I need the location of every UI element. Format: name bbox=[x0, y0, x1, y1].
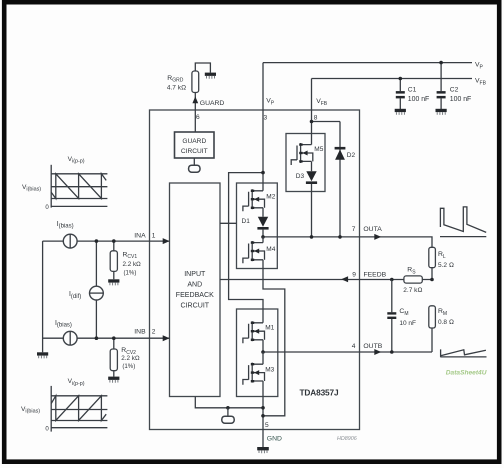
waveform input A diagram bbox=[22, 156, 107, 211]
resistor RL bbox=[429, 247, 454, 279]
resistor RCV2 bbox=[110, 338, 140, 376]
svg-text:10 nF: 10 nF bbox=[399, 320, 416, 327]
wire M4 source return loop bbox=[263, 269, 285, 416]
wire D1 to OUTA node bbox=[262, 230, 264, 237]
ground at C2 bbox=[436, 109, 447, 115]
pin 2 INB label bbox=[134, 328, 156, 335]
transistor M1 bbox=[243, 321, 275, 352]
wire drive line input box to stage A bbox=[220, 222, 237, 224]
arrow on guard wire bbox=[192, 96, 198, 103]
svg-text:CIRCUIT: CIRCUIT bbox=[181, 148, 208, 155]
arrow INA bbox=[163, 238, 170, 244]
svg-text:D2: D2 bbox=[347, 152, 356, 159]
arrow OUTB bbox=[374, 349, 381, 355]
guard circuit block bbox=[175, 132, 215, 158]
output stage B box (M1,M3) bbox=[237, 309, 278, 397]
wire GND vertical pin 5 bbox=[262, 397, 264, 448]
svg-text:100 nF: 100 nF bbox=[450, 96, 471, 103]
wire FEEDB bbox=[220, 279, 432, 281]
current source Ibias top bbox=[57, 221, 77, 248]
svg-text:M1: M1 bbox=[265, 325, 274, 332]
arrow INB bbox=[163, 335, 170, 341]
resistor RM bbox=[429, 306, 454, 352]
capacitor CM bbox=[387, 280, 416, 353]
svg-text:2.7 kΩ: 2.7 kΩ bbox=[403, 287, 422, 294]
node junction C1-VFB bbox=[399, 77, 403, 81]
substrate tab bbox=[222, 416, 234, 423]
pin 9 FEEDB label bbox=[352, 271, 386, 278]
node OUTA junctions bbox=[261, 235, 342, 239]
capacitor C1 bbox=[396, 79, 429, 110]
svg-text:INA: INA bbox=[134, 232, 146, 239]
ground at RCV1 bbox=[108, 279, 119, 285]
wire M5 to D3 bbox=[311, 161, 313, 171]
current source Idif bbox=[69, 286, 103, 300]
svg-text:2.2 kΩ: 2.2 kΩ bbox=[121, 355, 140, 362]
arrow OUTA bbox=[374, 234, 381, 240]
svg-text:DataSheet4U: DataSheet4U bbox=[446, 370, 487, 377]
svg-text:4: 4 bbox=[352, 343, 356, 350]
pin 7 OUTA label bbox=[352, 226, 382, 233]
wire VFB to D2 stub bbox=[312, 121, 341, 123]
svg-text:D3: D3 bbox=[296, 173, 305, 180]
wire left bias rail bbox=[42, 241, 44, 352]
node junctions GND rail bbox=[226, 406, 265, 418]
output stage A box (M2,D1,M4) bbox=[237, 183, 278, 269]
svg-text:AND: AND bbox=[187, 282, 202, 289]
wire D3 to OUTA bbox=[311, 184, 313, 237]
transistor M5 bbox=[291, 143, 324, 165]
svg-text:100 nF: 100 nF bbox=[408, 96, 429, 103]
svg-text:GUARD: GUARD bbox=[182, 138, 206, 145]
svg-text:7: 7 bbox=[352, 226, 356, 233]
svg-text:3: 3 bbox=[264, 115, 268, 122]
pin 5 GND label bbox=[265, 422, 282, 442]
pin 4 OUTB label bbox=[352, 343, 383, 350]
svg-text:M5: M5 bbox=[314, 146, 323, 153]
resistor RS bbox=[403, 267, 422, 294]
svg-text:M2: M2 bbox=[266, 193, 275, 200]
svg-text:6: 6 bbox=[196, 114, 200, 121]
wire OUTB bbox=[263, 351, 432, 353]
waveform input B diagram bbox=[21, 378, 107, 432]
resistor RGRD bbox=[167, 71, 199, 93]
svg-text:FEEDB: FEEDB bbox=[364, 271, 387, 278]
pin 1 INA label bbox=[134, 232, 156, 239]
wire OUTA bbox=[263, 237, 432, 247]
svg-text:OUTB: OUTB bbox=[363, 343, 382, 350]
IC outline TDA8357J bbox=[150, 110, 360, 430]
ground at GND pin bbox=[257, 447, 269, 453]
svg-text:1: 1 bbox=[152, 232, 156, 239]
node junction RCV2-INB bbox=[112, 336, 116, 340]
svg-text:2: 2 bbox=[152, 328, 156, 335]
arrow FEEDB bbox=[341, 276, 348, 282]
svg-text:INB: INB bbox=[134, 328, 146, 335]
svg-text:2.2 kΩ: 2.2 kΩ bbox=[123, 261, 142, 268]
current source Ibias bottom bbox=[55, 320, 77, 345]
diode D2 bbox=[335, 122, 356, 237]
wire Idif branch bbox=[95, 241, 97, 338]
transistor M2 bbox=[243, 183, 276, 217]
pin 3 label bbox=[264, 98, 275, 122]
node junction Idif-INA bbox=[95, 239, 99, 243]
node junction Vp tee bbox=[261, 171, 265, 175]
transistor M3 bbox=[243, 352, 275, 397]
ground at RCV2 bbox=[108, 377, 119, 383]
wire substrate tab stub bbox=[227, 408, 229, 416]
svg-text:8: 8 bbox=[314, 115, 318, 122]
diode D3 bbox=[296, 171, 317, 184]
svg-text:GUARD: GUARD bbox=[200, 100, 225, 107]
input and feedback circuit block bbox=[170, 183, 221, 397]
ground at RGRD bbox=[205, 73, 216, 79]
svg-text:4.7 kΩ: 4.7 kΩ bbox=[167, 84, 186, 91]
svg-text:C1: C1 bbox=[408, 86, 417, 93]
svg-text:5.2 Ω: 5.2 Ω bbox=[438, 262, 454, 269]
flyback switch box (M5,D3) bbox=[286, 134, 325, 192]
svg-text:(1%): (1%) bbox=[122, 363, 135, 370]
guard substrate tab bbox=[189, 165, 200, 172]
wire INB bbox=[43, 337, 169, 339]
node junction C2-Vp bbox=[439, 61, 443, 65]
svg-text:TDA8357J: TDA8357J bbox=[300, 388, 339, 398]
svg-text:(1%): (1%) bbox=[124, 270, 137, 277]
node junction FEEDB-CM bbox=[390, 278, 394, 282]
wire Vp pin 3 vertical bbox=[262, 63, 264, 183]
wire Vp rail bbox=[263, 62, 472, 64]
capacitor C2 bbox=[437, 63, 472, 109]
node junction RS-RL-RM bbox=[430, 278, 434, 282]
resistor RCV1 bbox=[110, 241, 141, 279]
ground at C1 bbox=[395, 109, 406, 115]
node OUTB junctions bbox=[261, 350, 393, 354]
ground at bias rail bbox=[37, 352, 48, 358]
svg-text:M3: M3 bbox=[265, 366, 274, 373]
svg-text:9: 9 bbox=[352, 271, 356, 278]
pin 8 label bbox=[314, 98, 328, 122]
waveform OUTA flyback pulses bbox=[440, 207, 486, 237]
svg-text:OUTA: OUTA bbox=[363, 226, 382, 233]
svg-text:D1: D1 bbox=[242, 218, 251, 225]
wire INA bbox=[43, 240, 169, 242]
svg-text:GND: GND bbox=[267, 435, 282, 442]
svg-text:C2: C2 bbox=[450, 86, 459, 93]
svg-text:CIRCUIT: CIRCUIT bbox=[181, 303, 210, 310]
diode D1 bbox=[242, 217, 269, 230]
wire VFB pin 8 vertical bbox=[311, 79, 313, 145]
node junction VFB-D2 bbox=[310, 120, 314, 124]
svg-text:HD8906: HD8906 bbox=[337, 436, 357, 442]
wire input box bottom to GND bbox=[195, 397, 263, 408]
transistor M4 bbox=[243, 237, 276, 269]
node junction Idif-INB bbox=[95, 336, 99, 340]
node junction RCV1-INA bbox=[112, 239, 116, 243]
wire VFB rail bbox=[312, 78, 473, 80]
wire Vp left feed to stage B bbox=[229, 173, 263, 323]
wire RGRD top to ground bbox=[195, 63, 210, 73]
waveform yoke current sawtooth bbox=[440, 349, 486, 357]
svg-text:0.8 Ω: 0.8 Ω bbox=[438, 319, 454, 326]
wire GUARD pin 6 bbox=[194, 93, 196, 133]
wire guard circuit to substrate tab bbox=[193, 158, 195, 165]
svg-text:M4: M4 bbox=[266, 246, 275, 253]
svg-text:5: 5 bbox=[265, 422, 269, 429]
svg-text:INPUT: INPUT bbox=[184, 271, 206, 278]
node GUARD label bbox=[196, 100, 224, 121]
svg-text:FEEDBACK: FEEDBACK bbox=[176, 292, 214, 299]
